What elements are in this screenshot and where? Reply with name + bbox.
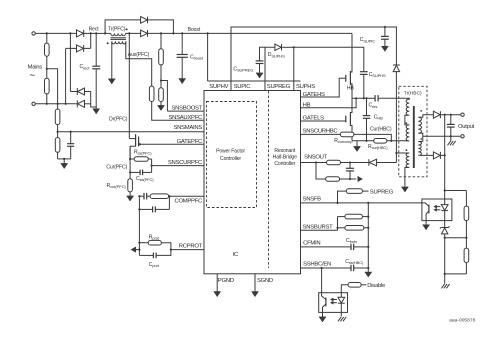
node divider tap <box>46 68 48 70</box>
capacitor CSUPHS <box>360 72 368 99</box>
wire snsfb <box>301 202 422 204</box>
wire snscurhbc <box>301 133 341 135</box>
wire D2 anode column <box>65 48 67 103</box>
capacitor output <box>447 115 455 137</box>
resistor Rcur(HBC) <box>374 139 405 144</box>
node d2 row <box>444 154 446 156</box>
wire hbc aux column <box>395 72 397 163</box>
core Tr(PFC) <box>110 38 126 40</box>
svg-text:DSUPHS: DSUPHS <box>268 52 285 58</box>
ground Tr(PFC) aux <box>108 78 115 84</box>
svg-text:Cboost: Cboost <box>190 54 204 60</box>
svg-text:SUPREG: SUPREG <box>267 84 291 90</box>
resistor Rprot <box>139 240 171 249</box>
wire snsmains ground join <box>58 158 71 160</box>
wire cfmin <box>301 246 351 248</box>
node cfmin right <box>367 246 369 248</box>
svg-text:Crect: Crect <box>80 64 91 70</box>
ic pin box separator suphs <box>293 81 295 91</box>
terminal mains N <box>32 102 35 105</box>
node chb bottom <box>365 140 367 142</box>
wire pgnd <box>216 274 218 297</box>
svg-text:CHB: CHB <box>374 115 383 121</box>
transformer Tr(PFC) primary <box>111 33 126 35</box>
wire hb pin <box>301 98 357 107</box>
node divider bottom <box>46 103 48 105</box>
ground sgnd <box>252 292 259 297</box>
node CSUPIC <box>384 26 386 28</box>
svg-text:Resonant: Resonant <box>274 148 296 154</box>
svg-text:aaa-005878: aaa-005878 <box>449 318 475 324</box>
wire D2 row <box>66 47 91 49</box>
polarity dots Tr(HBC) <box>406 122 408 124</box>
svg-text:CSUPREG: CSUPREG <box>233 66 253 72</box>
node D2 on N <box>65 103 67 105</box>
node snsburst lower right <box>367 227 369 229</box>
node Crect top <box>95 32 97 34</box>
node sense column on N <box>57 103 59 105</box>
wire disable <box>341 285 348 293</box>
node bypass rail left <box>104 32 106 34</box>
svg-text:RCPROT: RCPROT <box>179 244 203 250</box>
resistor snsburst upper <box>338 214 369 219</box>
svg-text:SUPHS: SUPHS <box>296 84 315 90</box>
node cur pfc bottom <box>129 171 131 173</box>
resistor boost divider upper <box>159 33 164 87</box>
transistor PFC mosfet <box>129 134 138 159</box>
capacitor CSUPIC <box>381 27 389 46</box>
chassis ground output <box>448 136 456 145</box>
arrow snsout right <box>358 176 363 181</box>
resistor Rss(PFC) <box>130 157 152 162</box>
node snsout cap top <box>349 161 351 163</box>
capacitor comppfc series <box>144 193 147 200</box>
wire drain Dr(PFC) <box>128 33 130 138</box>
wire rect to transformer <box>96 32 111 34</box>
optocoupler U1 transistor <box>422 203 429 221</box>
resistor snsmains lower <box>55 132 60 159</box>
wire suphs riser <box>293 47 295 81</box>
ic pin box separator supic <box>230 81 232 91</box>
transistor HS mosfet <box>346 33 352 98</box>
wire transformer to boost diode <box>126 32 208 34</box>
svg-text:Aux(PFC): Aux(PFC) <box>128 52 150 58</box>
node feedback top <box>444 189 446 191</box>
resistor snsout upper <box>327 160 370 165</box>
core Tr(HBC) <box>413 106 415 168</box>
dashed divider resonant controller <box>268 91 270 268</box>
wire rcprot to ic <box>171 249 204 251</box>
svg-text:SSHBC/EN: SSHBC/EN <box>303 262 331 268</box>
transformer HBC primary lower <box>405 125 409 141</box>
ground cur hbc <box>354 141 361 152</box>
zener feedback <box>440 221 450 238</box>
svg-text:Boost: Boost <box>188 27 201 33</box>
svg-text:CSUPHS: CSUPHS <box>369 72 386 78</box>
svg-text:PGND: PGND <box>218 278 234 284</box>
node rcprot wire left <box>138 249 140 251</box>
capacitor snsout <box>346 163 354 180</box>
svg-text:Rcurcomp: Rcurcomp <box>334 138 353 144</box>
capacitor snsmains <box>67 132 74 159</box>
diode DSUPHS <box>275 44 294 50</box>
ground opto emitter <box>423 221 430 230</box>
ground boost divider <box>158 105 165 111</box>
node ground join <box>63 158 65 160</box>
node aux tap <box>395 152 397 154</box>
diode snsout <box>369 159 397 166</box>
transformer HBC secondary lower <box>418 142 433 156</box>
diode bridge D2 <box>77 45 84 52</box>
resistor mains divider lower <box>45 78 50 104</box>
transformer HBC primary upper <box>378 98 409 125</box>
svg-text:SUPHV: SUPHV <box>209 84 228 90</box>
resistor feedback R1 <box>464 191 469 238</box>
svg-text:SUPREG: SUPREG <box>370 189 394 195</box>
wire hb node row <box>352 97 375 99</box>
wire gatehs <box>301 78 346 97</box>
wire boost rail to hb drain <box>208 32 352 34</box>
svg-text:SGND: SGND <box>257 278 273 284</box>
capacitor CHB <box>363 98 370 141</box>
diode boost <box>141 30 148 37</box>
wire supic riser and rail <box>231 27 396 81</box>
svg-text:Disable: Disable <box>367 283 386 289</box>
svg-text:SNSBOOST: SNSBOOST <box>172 105 203 111</box>
node cap top <box>70 131 72 133</box>
wire right services column <box>367 203 369 272</box>
ground CSUPIC <box>381 46 388 52</box>
svg-text:Cur(HBC): Cur(HBC) <box>370 126 392 132</box>
svg-text:SNSOUT: SNSOUT <box>304 155 328 161</box>
svg-text:SNSAUXPFC: SNSAUXPFC <box>169 115 204 121</box>
node snsburst lower left <box>336 227 338 229</box>
node suphv riser <box>207 32 209 34</box>
diode output D2 <box>433 152 444 159</box>
svg-text:~: ~ <box>29 70 35 81</box>
svg-text:Cfmin: Cfmin <box>346 238 357 244</box>
terminal mains L <box>32 32 35 35</box>
ground Crect <box>93 107 100 114</box>
capacitor Css(PFC) <box>130 170 152 176</box>
svg-text:Dr(PFC): Dr(PFC) <box>109 117 128 123</box>
diode bridge D4 <box>75 100 90 107</box>
optocoupler U2 transistor <box>322 293 326 313</box>
resistor mains divider upper <box>45 33 50 78</box>
wire snsboost to ic <box>167 110 204 112</box>
wire snsburst <box>301 229 338 231</box>
wire D2 cathode column <box>90 33 92 48</box>
svg-text:Controller: Controller <box>220 156 241 162</box>
ground services column <box>365 272 372 277</box>
node rcur junction <box>390 140 392 142</box>
ground pgnd <box>214 292 221 297</box>
node csuphs bottom <box>363 97 365 99</box>
wire supreg riser <box>265 47 275 81</box>
resistor snsout lower <box>326 177 357 182</box>
svg-text:Tr(PFC): Tr(PFC) <box>108 27 126 33</box>
resistor snsauxpfc <box>149 86 204 120</box>
wire comppfc series <box>139 195 143 197</box>
wire snsburst riser <box>337 217 339 231</box>
wire output minus rail <box>423 135 461 137</box>
ic top pin box line <box>208 80 301 82</box>
node snsburst upper right <box>367 216 369 218</box>
ic pin box separator supreg <box>264 81 266 91</box>
resistor snsfb supreg <box>338 189 369 203</box>
node rcprot right <box>170 249 172 251</box>
ground snsmains filter <box>61 159 68 169</box>
node snsfb column tap <box>367 202 369 204</box>
node Cboost top <box>181 32 183 34</box>
capacitor Cboost <box>177 33 188 77</box>
wire divider tap to sense column <box>47 69 58 109</box>
svg-text:HB: HB <box>347 85 355 91</box>
wire snscurpfc riser <box>151 159 153 172</box>
node outcap top <box>450 114 452 116</box>
node snsout cap bottom <box>349 178 351 180</box>
svg-text:Rcur(PFC): Rcur(PFC) <box>107 183 127 189</box>
node D2 cathode top <box>90 32 92 34</box>
capacitor Cfmin <box>351 244 368 250</box>
resistor feedback R2 <box>464 238 469 274</box>
wire bypass rail <box>105 20 173 34</box>
wire snsout lower branch <box>316 163 326 180</box>
svg-text:Controller: Controller <box>274 161 295 167</box>
diode bridge D3 <box>77 88 84 95</box>
svg-text:Power Factor: Power Factor <box>216 148 245 154</box>
node zener bottom <box>444 237 446 239</box>
svg-text:SNSBURST: SNSBURST <box>303 224 334 230</box>
node hb riser <box>355 97 357 99</box>
chassis ground feedback <box>441 274 449 288</box>
wire suphs rail to csuphs <box>294 47 364 71</box>
resistor snsburst lower <box>338 226 369 231</box>
optocoupler U1 box <box>422 199 452 221</box>
terminal output minus <box>461 135 464 138</box>
diode bridge D1 top <box>75 30 96 37</box>
capacitor CSUPREG <box>256 47 265 72</box>
svg-text:Rprot: Rprot <box>149 234 160 240</box>
wire snsboost tap <box>161 81 167 112</box>
svg-text:Cur(PFC): Cur(PFC) <box>106 164 127 170</box>
svg-text:Css(HBC): Css(HBC) <box>345 259 364 265</box>
capacitor Crect <box>92 33 100 107</box>
resistor snsmains upper <box>55 109 60 132</box>
node boost divider top <box>160 32 162 34</box>
wire mains L <box>35 32 75 34</box>
transistor LS mosfet <box>346 98 352 141</box>
wire suphv riser <box>207 33 209 81</box>
wire snsout <box>301 162 327 164</box>
wire d2 to plus rail <box>444 115 446 191</box>
diode supic feed <box>393 65 400 72</box>
svg-text:Cprot: Cprot <box>149 262 160 268</box>
node cur pfc top <box>129 158 131 160</box>
resistor boost divider lower <box>159 88 164 105</box>
dashed box Tr(HBC) <box>399 86 427 177</box>
svg-text:Css(PFC): Css(PFC) <box>136 176 154 182</box>
polarity dot Tr(PFC) primary <box>126 28 128 30</box>
optocoupler U1 led <box>441 191 448 221</box>
svg-text:Rect: Rect <box>89 26 100 32</box>
resistor Rcurcomp <box>340 132 391 141</box>
node chb top <box>365 97 367 99</box>
transformer Tr(PFC) aux winding <box>112 41 126 44</box>
svg-text:Rss(PFC): Rss(PFC) <box>134 150 152 156</box>
transformer HBC secondary upper <box>418 115 433 142</box>
resistor Rcur(PFC) <box>128 179 133 196</box>
svg-text:SUPIC: SUPIC <box>234 84 252 90</box>
wire snscurpfc to ic <box>152 165 204 167</box>
wire gatepfc <box>140 143 204 145</box>
wire opto2 collector <box>321 268 323 293</box>
chassis ground opto2 led <box>338 312 346 321</box>
dashed box power factor controller <box>207 102 257 208</box>
wire comppfc rcprot column <box>138 196 140 255</box>
diode bypass <box>141 17 148 24</box>
node comppfc left <box>138 195 140 197</box>
optocoupler U2 light arrows <box>330 298 337 304</box>
node suphs riser <box>293 46 295 48</box>
capacitor Css(HBC) <box>351 265 368 271</box>
wire snsmains to ic <box>58 131 204 133</box>
wire aux left to ground <box>111 41 113 77</box>
wire mains N <box>35 103 75 105</box>
ic IC body <box>204 91 301 274</box>
node feedback bottom <box>444 273 446 275</box>
node d2 join <box>444 114 446 116</box>
svg-text:Output: Output <box>458 124 475 130</box>
svg-text:CFMIN: CFMIN <box>303 240 320 246</box>
wire feedback bottom row <box>445 273 467 275</box>
svg-text:SNSMAINS: SNSMAINS <box>173 125 202 131</box>
node comppfc parallel left <box>138 208 140 210</box>
capacitor Cres <box>375 95 378 101</box>
svg-text:Cres: Cres <box>369 103 378 109</box>
wire D3 cathode column <box>69 33 71 91</box>
diode output D1 <box>433 111 460 118</box>
node divider mid <box>465 237 467 239</box>
node snscurpfc <box>151 165 153 167</box>
svg-text:SNSFB: SNSFB <box>303 196 322 202</box>
wire cur hbc row <box>352 140 374 142</box>
node Dr tap <box>128 32 130 34</box>
node divider top <box>46 32 48 34</box>
wire feedback top branch <box>445 190 467 192</box>
node sshbc opto tap <box>321 267 323 269</box>
ground Cboost <box>179 78 186 84</box>
node snsfb supreg tap <box>336 202 338 204</box>
optocoupler U2 led <box>338 293 345 313</box>
ground CSUPREG <box>256 72 263 78</box>
node comppfc right <box>168 195 170 197</box>
svg-text:Half-Bridge: Half-Bridge <box>273 154 297 160</box>
ground Rcur(PFC) <box>127 196 134 202</box>
capacitor comppfc parallel <box>139 196 169 212</box>
svg-text:CSUPIC: CSUPIC <box>360 37 375 43</box>
wire bridge minus column <box>91 92 97 108</box>
wire zener to divider <box>445 237 467 239</box>
node gatepfc <box>139 143 141 145</box>
ground HBC aux <box>401 187 408 192</box>
capacitor Cprot <box>139 250 171 259</box>
wire gatels <box>301 120 346 122</box>
svg-text:Tr(HBC): Tr(HBC) <box>404 91 422 97</box>
node snsmains <box>57 131 59 133</box>
wire D3 row <box>70 91 90 93</box>
node rcprot r left <box>138 242 140 244</box>
node snsout branch <box>315 161 317 163</box>
resistor comppfc series <box>147 194 204 199</box>
wire sshbc <box>301 267 351 269</box>
node D3 column top <box>69 32 71 34</box>
optocoupler U1 light arrows <box>434 205 441 211</box>
transformer HBC aux winding <box>396 153 409 187</box>
node boost divider tap <box>160 79 162 81</box>
svg-text:Rcur(HBC): Rcur(HBC) <box>368 144 388 150</box>
node sshbc right <box>367 267 369 269</box>
node outcap bottom <box>450 135 452 137</box>
ground opto2 emitter <box>319 312 326 322</box>
optocoupler U2 box <box>319 293 348 313</box>
wire feedback mid column <box>444 238 446 274</box>
polarity dot aux winding <box>107 42 109 44</box>
wire sgnd <box>254 274 256 297</box>
svg-text:COMPPFC: COMPPFC <box>175 199 204 205</box>
terminal output plus <box>461 113 464 116</box>
node bypass rail right <box>172 32 174 34</box>
wire aux right down <box>126 41 152 86</box>
arrow rcprot left <box>131 247 139 252</box>
resistor disable <box>348 283 366 288</box>
wire pfc source column <box>129 146 131 179</box>
svg-text:SNSCURHBC: SNSCURHBC <box>303 129 339 135</box>
